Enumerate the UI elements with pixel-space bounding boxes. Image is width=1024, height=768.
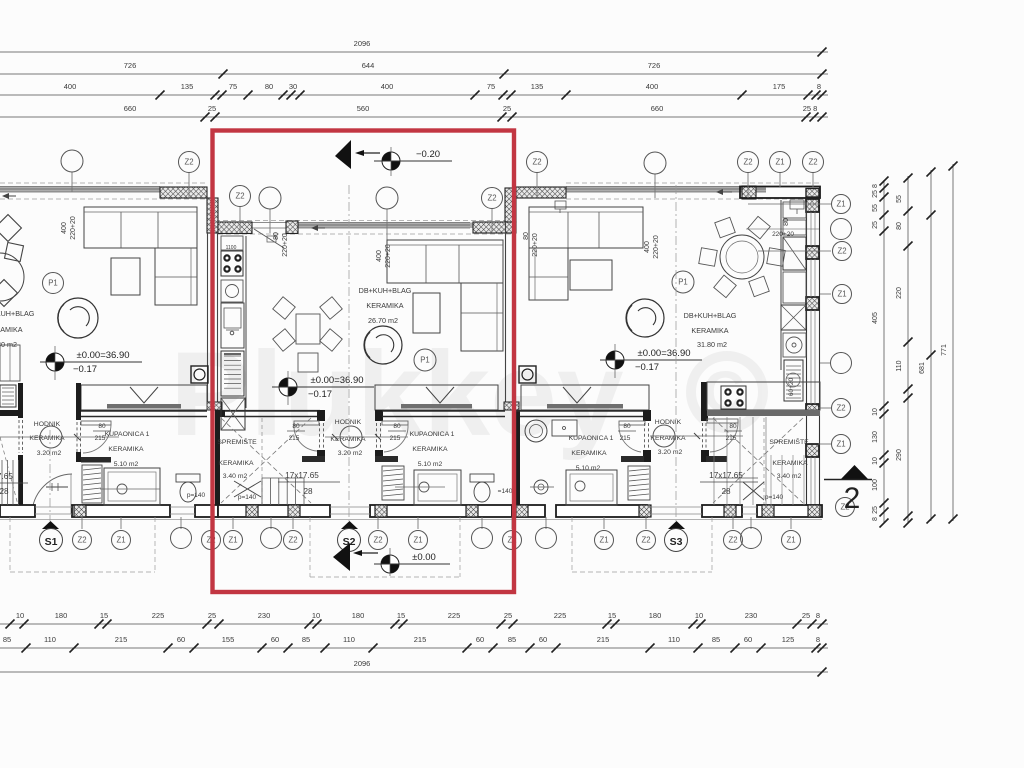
svg-text:80: 80 (273, 232, 280, 240)
svg-text:DB+KUH+BLAG: DB+KUH+BLAG (0, 309, 35, 318)
svg-text:771: 771 (941, 344, 948, 356)
svg-text:Z1: Z1 (116, 536, 125, 545)
bottom dimension line total 2096 (0, 671, 828, 673)
section line S1 (49, 430, 51, 521)
svg-text:80: 80 (896, 222, 903, 230)
svg-text:25 8: 25 8 (803, 104, 818, 113)
svg-text:25: 25 (872, 190, 879, 198)
svg-text:215: 215 (390, 435, 401, 442)
svg-text:80: 80 (265, 82, 273, 91)
boiler right unit (783, 333, 806, 357)
right exterior wall (806, 198, 808, 505)
svg-text:15: 15 (397, 611, 405, 620)
svg-text:KERAMIKA: KERAMIKA (571, 450, 607, 457)
svg-text:±0.00=36.90: ±0.00=36.90 (637, 348, 690, 359)
svg-text:Z1: Z1 (599, 536, 608, 545)
svg-text:Z1: Z1 (837, 290, 846, 299)
svg-text:400: 400 (376, 250, 383, 262)
elevation marker right unit (606, 351, 624, 369)
party wall 1 (207, 233, 209, 410)
armchair right unit (626, 299, 664, 337)
svg-text:230: 230 (745, 611, 758, 620)
bath top wall middle unit (382, 410, 505, 412)
red highlight rectangle (middle unit) (213, 131, 515, 593)
svg-text:25: 25 (208, 104, 216, 113)
svg-text:15: 15 (100, 611, 108, 620)
toilet left bath (176, 474, 200, 482)
dining table right unit (720, 235, 764, 279)
hatched wall left unit top (160, 187, 207, 198)
svg-text:31.80 m2: 31.80 m2 (697, 340, 727, 349)
armchair left unit (58, 298, 98, 338)
svg-text:726: 726 (124, 61, 137, 70)
svg-text:80: 80 (729, 423, 737, 430)
hodnik wall left unit (bath side) (76, 383, 81, 410)
svg-text:=140: =140 (498, 488, 513, 495)
svg-text:Z2: Z2 (837, 247, 846, 256)
svg-text:290: 290 (896, 449, 903, 461)
S1 marker (42, 521, 59, 529)
svg-text:125: 125 (782, 635, 795, 644)
svg-text:SPREMIŠTE: SPREMIŠTE (217, 437, 257, 446)
kitchen middle unit (vertical along party wall 1) (245, 236, 247, 408)
svg-text:2: 2 (844, 482, 861, 515)
section line S2 (348, 185, 350, 521)
svg-text:180: 180 (649, 611, 662, 620)
terrace dashed outline left (9, 517, 11, 572)
svg-text:80: 80 (98, 423, 106, 430)
right bubbles (832, 195, 851, 214)
svg-text:60: 60 (744, 635, 752, 644)
svg-text:85: 85 (508, 635, 516, 644)
arrow middle unit door (312, 227, 325, 229)
toilet middle bath (470, 474, 494, 482)
svg-text:Z2: Z2 (235, 192, 244, 201)
sink left bath (46, 486, 68, 488)
svg-text:28: 28 (0, 487, 9, 496)
svg-text:Z1: Z1 (413, 536, 422, 545)
svg-text:85: 85 (302, 635, 310, 644)
stairs left unit (1, 460, 3, 505)
svg-text:−0.20: −0.20 (416, 149, 440, 160)
terrace dashed outline middle (309, 517, 311, 577)
svg-text:560: 560 (357, 104, 370, 113)
svg-text:10: 10 (872, 408, 879, 416)
coffee table left unit (111, 258, 140, 295)
svg-text:P1: P1 (678, 278, 688, 287)
svg-text:Z2: Z2 (532, 158, 541, 167)
kitchen right unit (vertical along right wall) (780, 200, 782, 370)
svg-text:Z1: Z1 (775, 158, 784, 167)
svg-text:28: 28 (721, 487, 731, 496)
stairs middle unit (221, 418, 311, 503)
svg-text:110: 110 (343, 635, 355, 644)
bottom wall segments (0, 505, 35, 517)
svg-text:p=140: p=140 (238, 494, 257, 501)
stove middle unit (221, 251, 243, 276)
svg-text:180: 180 (55, 611, 68, 620)
arrow right unit door (719, 191, 732, 193)
svg-text:681: 681 (919, 362, 926, 374)
svg-text:60: 60 (177, 635, 185, 644)
door arc left unit entry (32, 474, 72, 514)
hodnik left wall right unit with door (643, 410, 651, 421)
door leaf right unit entrance (790, 200, 804, 209)
svg-text:80: 80 (783, 218, 790, 226)
svg-text:P1: P1 (420, 356, 430, 365)
svg-text:400: 400 (646, 82, 659, 91)
left edge wall stub (18, 383, 23, 418)
svg-text:−0.17: −0.17 (635, 362, 659, 373)
svg-text:25: 25 (504, 611, 512, 620)
svg-text:Z2: Z2 (743, 158, 752, 167)
boiler square right unit (519, 366, 536, 383)
svg-text:30: 30 (289, 82, 297, 91)
svg-text:80: 80 (623, 423, 631, 430)
svg-text:Z2: Z2 (373, 536, 382, 545)
section 2 marker (841, 465, 868, 479)
svg-text:225: 225 (554, 611, 567, 620)
svg-text:p=140: p=140 (765, 494, 784, 501)
svg-text:644: 644 (362, 61, 375, 70)
svg-text:220: 220 (896, 287, 903, 299)
top dimension line 660/25/560/25/660 (0, 116, 828, 118)
svg-text:28: 28 (303, 487, 313, 496)
svg-text:KERAMIKA: KERAMIKA (772, 460, 808, 467)
svg-text:215: 215 (620, 435, 631, 442)
svg-text:10: 10 (695, 611, 703, 620)
svg-text:100: 100 (872, 479, 879, 491)
svg-text:8: 8 (872, 517, 879, 521)
svg-text:HODNIK: HODNIK (335, 419, 362, 426)
grid bubble Z2 right unit b (738, 152, 759, 173)
svg-text:8: 8 (816, 611, 820, 620)
boiler square left unit (191, 366, 208, 383)
svg-text:175: 175 (773, 82, 786, 91)
svg-text:220+20: 220+20 (70, 216, 77, 240)
sofa left unit (84, 207, 197, 248)
closet band unit 3 (521, 385, 649, 410)
svg-text:5.10 m2: 5.10 m2 (576, 465, 601, 472)
hatched wall middle door post (286, 221, 298, 234)
dashed facade line middle unit (207, 220, 516, 222)
glazing band right unit (566, 187, 742, 193)
svg-text:85: 85 (712, 635, 720, 644)
svg-text:215: 215 (95, 435, 106, 442)
grid bubble Z2 right unit a (527, 152, 548, 173)
svg-text:KUPAONICA 1: KUPAONICA 1 (105, 431, 150, 438)
grid bubble Z2 middle step (230, 186, 251, 207)
grid bubble plain middle b (376, 187, 398, 209)
svg-text:3.20 m2: 3.20 m2 (37, 450, 62, 457)
svg-text:Z2: Z2 (184, 158, 193, 167)
svg-text:10: 10 (312, 611, 320, 620)
right vertical dimension line A (883, 180, 885, 523)
svg-text:KERAMIKA: KERAMIKA (366, 301, 403, 310)
hatched wall right unit door post (742, 186, 756, 199)
washing machine middle unit (221, 351, 244, 396)
svg-text:726: 726 (648, 61, 661, 70)
door gaps thin lines in bottom wall (35, 506, 72, 508)
bottom dimension line row 1 (0, 623, 828, 625)
svg-text:60: 60 (539, 635, 547, 644)
svg-text:3.40 m2: 3.40 m2 (777, 473, 802, 480)
svg-text:215: 215 (289, 435, 300, 442)
svg-text:25: 25 (503, 104, 511, 113)
spremiste boundary dashes (261, 418, 263, 504)
svg-text:85: 85 (3, 635, 11, 644)
closet band unit 2 (375, 385, 498, 410)
grid bubble Z2 right unit d (803, 152, 824, 173)
svg-text:17x17.65: 17x17.65 (285, 471, 319, 480)
top dimension line 726/644/726 (0, 73, 828, 75)
elevation marker bottom +-0.00 (381, 555, 399, 573)
svg-text:80: 80 (393, 423, 401, 430)
svg-text:Z1: Z1 (836, 440, 845, 449)
svg-text:Z1: Z1 (786, 536, 795, 545)
kitchen right unit horizontal counter (701, 382, 707, 416)
svg-text:400: 400 (644, 241, 651, 253)
svg-text:26.70 m2: 26.70 m2 (368, 316, 398, 325)
hatched wall middle top-right (473, 222, 516, 233)
sofa right unit (529, 207, 643, 248)
S3 marker (668, 521, 685, 529)
bottom dimension line row 2 (0, 647, 828, 649)
party wall 2 (505, 222, 507, 410)
door left unit bath (76, 422, 78, 452)
hatched wall step vertical (party wall 2 top) (505, 188, 516, 222)
hatched wall right unit top-left (516, 187, 566, 198)
grid line through left bath (100, 488, 160, 490)
bathtub left bath (104, 468, 160, 505)
S2 marker (341, 521, 358, 529)
svg-text:15: 15 (608, 611, 616, 620)
glazing band left unit (0, 187, 160, 193)
coffee table right unit (570, 260, 612, 290)
svg-text:3.20 m2: 3.20 m2 (338, 450, 363, 457)
sofa middle unit (387, 240, 503, 283)
coffee table middle unit (413, 293, 440, 333)
svg-text:3.20 m2: 3.20 m2 (658, 449, 683, 456)
svg-text:25: 25 (872, 221, 879, 229)
stove right unit (721, 386, 746, 409)
svg-text:KERAMIKA: KERAMIKA (29, 435, 65, 442)
svg-text:60: 60 (476, 635, 484, 644)
svg-text:215: 215 (726, 435, 737, 442)
svg-text:220+20: 220+20 (653, 235, 660, 259)
svg-text:Z1: Z1 (836, 200, 845, 209)
bathtub right bath (566, 470, 617, 505)
svg-text:1100: 1100 (226, 245, 237, 251)
svg-text:135: 135 (181, 82, 194, 91)
terrace dashed outline right (571, 517, 573, 572)
right unit top corner wall (740, 187, 820, 199)
boiler box middle kitchen (221, 280, 243, 302)
svg-text:KERAMIKA: KERAMIKA (218, 460, 254, 467)
svg-text:31.80 m2: 31.80 m2 (0, 340, 17, 349)
svg-text:220+20: 220+20 (385, 244, 392, 268)
svg-text:25: 25 (208, 611, 216, 620)
top dimension line 400/135/75/80/30/400... (0, 94, 828, 96)
grid stems top (71, 172, 73, 192)
svg-text:110: 110 (44, 635, 56, 644)
svg-text:25: 25 (872, 506, 879, 514)
svg-text:10: 10 (872, 457, 879, 465)
svg-text:10: 10 (16, 611, 24, 620)
svg-text:−0.17: −0.17 (308, 389, 332, 400)
svg-text:8: 8 (872, 184, 879, 188)
svg-text:225: 225 (152, 611, 165, 620)
drain symbol right bath (534, 480, 548, 494)
svg-text:KUPAONICA 1: KUPAONICA 1 (410, 431, 455, 438)
hatched wall middle top-left (218, 222, 252, 234)
svg-text:p=140: p=140 (187, 492, 206, 499)
svg-text:KERAMIKA: KERAMIKA (108, 446, 144, 453)
svg-text:130: 130 (872, 431, 879, 443)
cabinet X middle unit (221, 398, 245, 430)
svg-text:17x17.65: 17x17.65 (0, 472, 13, 481)
grid bubble Z2 middle right (482, 188, 503, 209)
svg-text:Z2: Z2 (288, 536, 297, 545)
svg-text:KERAMIKA: KERAMIKA (412, 446, 448, 453)
svg-text:5.10 m2: 5.10 m2 (114, 461, 139, 468)
dining table left unit (clipped) (0, 253, 24, 301)
right vertical dimension line B (907, 176, 909, 523)
svg-text:KUPAONICA 1: KUPAONICA 1 (569, 435, 614, 442)
kitchen left unit fragment (0, 345, 20, 381)
svg-text:Z2: Z2 (728, 536, 737, 545)
dashed facade line left unit (0, 182, 207, 184)
svg-text:155: 155 (222, 635, 235, 644)
watermark (170, 327, 763, 461)
svg-text:220+20: 220+20 (532, 233, 539, 257)
svg-text:KERAMIKA: KERAMIKA (0, 325, 23, 334)
svg-text:110: 110 (896, 360, 903, 371)
entrance triangle top (335, 140, 351, 169)
hatched wall step vertical (party wall 1 top) (207, 198, 218, 233)
svg-text:Z2: Z2 (641, 536, 650, 545)
svg-text:660: 660 (651, 104, 664, 113)
svg-text:8: 8 (816, 635, 820, 644)
radiator left bath (82, 465, 102, 503)
svg-text:DB+KUH+BLAG: DB+KUH+BLAG (684, 311, 737, 320)
bottom grid stems (81, 517, 83, 529)
svg-text:2096: 2096 (354, 659, 371, 668)
svg-text:17x17.65: 17x17.65 (709, 471, 743, 480)
stairs right unit (713, 418, 803, 503)
svg-text:HODNIK: HODNIK (655, 419, 682, 426)
section line S3 (675, 185, 677, 521)
svg-text:2096: 2096 (354, 39, 371, 48)
elevation marker -0.20 (382, 152, 400, 170)
svg-text:Z1: Z1 (228, 536, 237, 545)
svg-text:55: 55 (872, 204, 879, 212)
svg-text:Z2: Z2 (487, 194, 496, 203)
entrance triangle bottom (333, 543, 350, 571)
svg-text:135: 135 (531, 82, 544, 91)
bathtub middle bath (414, 470, 461, 505)
svg-text:Z2: Z2 (836, 404, 845, 413)
svg-text:S1: S1 (45, 536, 58, 548)
svg-text:400: 400 (61, 222, 68, 234)
door swing X middle spremiste (234, 481, 261, 497)
svg-text:KERAMIKA: KERAMIKA (691, 326, 728, 335)
glazing band middle unit (298, 223, 473, 229)
svg-text:5.10 m2: 5.10 m2 (418, 461, 443, 468)
right vertical dimension line D (771) (952, 164, 954, 521)
grid bubble Z2 top 2 (179, 152, 200, 173)
svg-text:P1: P1 (48, 279, 58, 288)
bottom grid bubbles (73, 531, 92, 550)
svg-text:75: 75 (229, 82, 237, 91)
arrow left unit door (3, 195, 16, 197)
svg-text:110: 110 (668, 635, 680, 644)
armchair middle unit (364, 326, 402, 364)
svg-text:Z2: Z2 (77, 536, 86, 545)
svg-text:180: 180 (352, 611, 365, 620)
radiator middle bath (382, 466, 404, 500)
grid bubble plain middle a (259, 187, 281, 209)
grid bubble (plain) top 1 (61, 150, 83, 172)
svg-text:55: 55 (896, 195, 903, 203)
hodnik left wall middle unit with door (317, 410, 325, 421)
grid bubble Z1 right unit c (770, 152, 791, 173)
closet band unit 1 (81, 385, 207, 410)
svg-text:±0.00: ±0.00 (412, 552, 436, 563)
sink middle unit (221, 303, 244, 348)
cabinet X right unit (781, 305, 806, 330)
svg-text:215: 215 (414, 635, 427, 644)
svg-text:±0.00=36.90: ±0.00=36.90 (310, 375, 363, 386)
entrance arrow top (358, 152, 380, 154)
svg-text:400: 400 (381, 82, 394, 91)
svg-text:80: 80 (292, 423, 300, 430)
svg-text:−0.17: −0.17 (73, 364, 97, 375)
fridge right unit (783, 237, 806, 270)
svg-text:25: 25 (802, 611, 810, 620)
bath top wall right unit (516, 410, 645, 412)
svg-text:75: 75 (487, 82, 495, 91)
svg-text:Z2: Z2 (808, 158, 817, 167)
svg-text:660: 660 (124, 104, 137, 113)
radiator right bath (628, 466, 650, 500)
hodnik right wall right unit with door (701, 410, 708, 421)
svg-text:DB+KUH+BLAG: DB+KUH+BLAG (359, 286, 412, 295)
sink right bath (552, 420, 577, 436)
thin sill line below bottom wall (0, 519, 822, 521)
svg-text:S3: S3 (670, 536, 683, 548)
svg-text:230: 230 (258, 611, 271, 620)
door leaf symbol right unit inner (555, 201, 566, 209)
hodnik right wall middle unit with door (375, 410, 383, 421)
right vertical dimension line C (681) (930, 170, 932, 521)
dashed facade line right unit (566, 182, 822, 184)
grid bubble plain right unit (644, 152, 666, 174)
svg-text:225: 225 (448, 611, 461, 620)
svg-text:±0.00=36.90: ±0.00=36.90 (76, 350, 129, 361)
svg-text:220+20: 220+20 (282, 233, 289, 257)
bath top wall left unit (double line) (81, 410, 207, 412)
svg-text:3.40 m2: 3.40 m2 (223, 473, 248, 480)
svg-text:60: 60 (271, 635, 279, 644)
svg-text:8: 8 (817, 82, 821, 91)
elevation marker left unit (46, 353, 64, 371)
toilet right bath (525, 420, 547, 442)
svg-text:SPREMIŠTE: SPREMIŠTE (769, 437, 809, 446)
elevation marker middle unit (279, 378, 297, 396)
spremiste top wall middle unit (219, 410, 320, 412)
svg-text:405: 405 (872, 312, 879, 324)
